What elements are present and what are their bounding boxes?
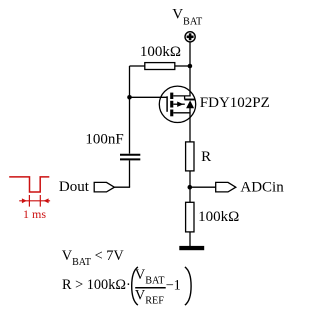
svg-text:ADCin: ADCin <box>240 179 284 195</box>
svg-text:FDY102PZ: FDY102PZ <box>200 95 270 111</box>
wire corner to Dout tag <box>114 186 130 188</box>
wire capacitor down to corner <box>129 160 131 187</box>
wire R to ADC node <box>189 171 191 187</box>
svg-text:100nF: 100nF <box>85 132 123 148</box>
wire transistor drain down to resistor R <box>189 108 191 142</box>
junction dot at gate tee <box>127 95 132 100</box>
svg-text:R: R <box>201 149 211 165</box>
wire node to ADCin tag <box>190 186 216 188</box>
svg-text:100kΩ: 100kΩ <box>140 44 181 60</box>
power flag + symbol (circle with plus) <box>185 32 195 42</box>
svg-text:R > 100kΩ·: R > 100kΩ· <box>62 277 131 293</box>
wire left of top resistor <box>130 65 145 67</box>
svg-text:Dout: Dout <box>59 179 90 195</box>
svg-text:−1: −1 <box>166 278 181 294</box>
wire right of top resistor <box>175 65 190 67</box>
capacitor C 100nF <box>120 155 140 160</box>
pulse width tick right <box>39 195 41 207</box>
resistor 100k (horizontal, gate pull-up) <box>145 63 175 70</box>
wire left vertical (resistor to capacitor) <box>129 66 131 154</box>
ADCin tag (signal flag) <box>216 182 236 192</box>
wire gate <box>130 96 167 98</box>
junction dot ADC node <box>188 185 193 190</box>
dimension line with arrows <box>19 198 50 203</box>
wire resistor to ground <box>189 232 191 246</box>
resistor 100k (bottom divider) <box>186 202 194 232</box>
svg-text:1 ms: 1 ms <box>23 207 46 221</box>
Dout tag (signal flag) <box>94 182 114 192</box>
resistor R (vertical) <box>186 142 194 171</box>
svg-text:100kΩ: 100kΩ <box>198 209 239 225</box>
pulse width tick left <box>28 195 30 207</box>
wire power flag down to junction <box>189 42 191 66</box>
wire node down to bottom resistor <box>189 187 191 202</box>
ground symbol <box>179 246 204 250</box>
Dout pulse waveform (red) <box>9 177 49 192</box>
formula R > 100kohm(VBAT/VREF - 1) <box>62 267 191 307</box>
wire VBAT node down to transistor source <box>189 66 191 97</box>
junction dot at VBAT node <box>188 64 193 69</box>
transistor Q1 FDY102PZ (P-MOSFET) <box>159 86 195 122</box>
